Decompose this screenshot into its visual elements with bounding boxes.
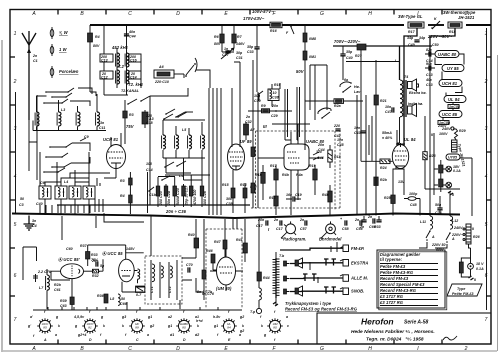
bank1 coil L2a [35, 112, 39, 126]
dial lamp 1 [446, 165, 461, 173]
svg-text:C18: C18 [146, 121, 153, 125]
svg-text:C71: C71 [150, 286, 154, 293]
svg-text:C43: C43 [354, 131, 361, 135]
HT bus right segment [428, 24, 444, 26]
svg-text:C44: C44 [129, 35, 136, 39]
svg-text:L4: L4 [179, 174, 183, 178]
svg-text:L11: L11 [420, 220, 426, 224]
svg-text:R29: R29 [459, 129, 466, 133]
ground from bus [24, 216, 38, 231]
heater capacitor C50 [432, 43, 439, 47]
volume pot 32c C46 [313, 150, 324, 160]
svg-text:500M C24: 500M C24 [176, 188, 180, 205]
chassis mark bottom [469, 276, 478, 282]
svg-text:C17: C17 [276, 227, 284, 231]
svg-text:EKSTRA: EKSTRA [351, 261, 368, 266]
hum balance caps under bus [359, 216, 382, 229]
svg-text:T.p: T.p [250, 310, 256, 314]
frame tick marks bottom [58, 340, 442, 345]
type callout parallelogram [447, 284, 482, 296]
svg-text:R1b: R1b [255, 173, 263, 177]
T-caps pair 2 [324, 259, 336, 266]
svg-text:R33: R33 [91, 253, 98, 257]
svg-text:2n: 2n [273, 218, 279, 222]
svg-text:UL 84: UL 84 [404, 137, 416, 142]
detector verticals [285, 87, 305, 145]
eye feed resistor R47 [214, 235, 227, 257]
svg-text:R21: R21 [380, 99, 387, 103]
svg-text:C11: C11 [99, 126, 105, 130]
band switch T2 KANAL [104, 88, 188, 105]
svg-text:0.1A: 0.1A [476, 267, 484, 271]
AF resistor R4b [322, 185, 332, 215]
IF padder labels [159, 185, 207, 206]
svg-text:80: 80 [273, 326, 277, 330]
discriminator load R40 [188, 233, 199, 258]
L5 coil 3 [188, 135, 192, 149]
IF dropper resistor [251, 147, 255, 157]
capacitor C44 top [124, 25, 136, 39]
oscillator coil A3 [142, 110, 154, 128]
svg-text:35p: 35p [346, 50, 353, 54]
svg-text:2n: 2n [354, 218, 360, 222]
bank1 bottom bus [33, 126, 106, 130]
switch bus bars [280, 248, 343, 291]
trimmer arrow [221, 48, 234, 59]
svg-text:g2: g2 [239, 329, 244, 333]
svg-text:90c: 90c [426, 62, 432, 66]
selector labels [451, 226, 480, 239]
svg-text:80: 80 [182, 326, 186, 330]
svg-text:Trykknapsystem i type: Trykknapsystem i type [285, 301, 332, 306]
label 10n C45 [337, 138, 345, 147]
magic eye UM80 [217, 249, 236, 291]
bank1 coil L2b [57, 112, 61, 126]
socket UF89 [121, 310, 154, 342]
svg-text:g1: g1 [147, 315, 152, 319]
resistor R6 [214, 25, 224, 52]
svg-text:R24: R24 [380, 166, 387, 170]
svg-text:R4: R4 [120, 194, 125, 198]
svg-text:170V-£3V~: 170V-£3V~ [243, 16, 265, 21]
svg-text:0.1A: 0.1A [453, 169, 461, 173]
frame tick marks top [58, 10, 442, 15]
output transformer T4 [395, 46, 408, 117]
svg-text:L12: L12 [452, 219, 458, 223]
mains switch b [446, 232, 455, 243]
svg-text:13V: 13V [398, 180, 405, 184]
antenna [22, 31, 38, 120]
heater chain wire [404, 28, 455, 158]
tube UCH81 [103, 133, 126, 178]
svg-text:2n: 2n [299, 218, 305, 222]
svg-text:40n: 40n [128, 30, 136, 34]
switch row mid 220 C18 [145, 112, 193, 125]
label 18V Q1A [476, 262, 484, 271]
heater stadium UABC80 [435, 51, 459, 58]
pushbutton caption [285, 301, 358, 312]
svg-text:h+d: h+d [196, 319, 203, 323]
svg-text:R19: R19 [309, 164, 316, 168]
svg-text:Petite FM-£3: Petite FM-£3 [452, 292, 474, 296]
svg-text:146V: 146V [236, 42, 245, 46]
svg-text:C3: C3 [19, 203, 24, 207]
svg-text:Record FM-£3-RG: Record FM-£3-RG [380, 288, 417, 293]
svg-text:UCH 81: UCH 81 [103, 137, 119, 142]
coupling coil A7 [244, 122, 256, 140]
grid resistor R24 [361, 50, 393, 170]
svg-text:10n: 10n [337, 138, 344, 142]
coil bank L5 [163, 109, 205, 135]
svg-text:G: G [320, 11, 324, 17]
heater stadium UCC85 [439, 111, 462, 118]
svg-text:UCC 85: UCC 85 [442, 112, 458, 117]
svg-text:a: a [286, 315, 288, 319]
tube UABC80 [284, 122, 325, 170]
svg-text:+: + [340, 217, 342, 221]
svg-text:10n: 10n [354, 126, 361, 130]
capacitor C33 [247, 25, 260, 92]
voltage selector strip [463, 224, 471, 244]
rectifier stadium UY85 [446, 154, 460, 160]
svg-text:T.b: T.b [279, 254, 285, 258]
svg-text:Indb. hø.: Indb. hø. [408, 102, 423, 106]
button squares with arrows [340, 245, 349, 295]
svg-text:10n: 10n [254, 94, 261, 98]
svg-text:2n: 2n [245, 115, 251, 119]
heater feed vertical right [449, 192, 451, 216]
svg-text:Ekstra hø.: Ekstra hø. [409, 91, 427, 95]
svg-text:R15: R15 [222, 183, 230, 187]
svg-text:Record FM-£3 og Record FM-£3-: Record FM-£3 og Record FM-£3-RG [285, 307, 358, 312]
svg-text:C29: C29 [271, 114, 278, 118]
svg-text:g': g' [27, 324, 31, 328]
screen caps row labels [254, 94, 261, 103]
svg-text:R44: R44 [263, 276, 270, 280]
L5 coil 2 [175, 135, 179, 149]
svg-text:A: A [431, 235, 435, 239]
FM B+ resistor R41 [236, 228, 247, 262]
svg-text:C13: C13 [426, 73, 433, 77]
UABC80 anode feed wires [310, 65, 327, 120]
grid numbers left [13, 31, 17, 323]
svg-text:20n: 20n [271, 104, 279, 108]
label R37 [66, 244, 88, 251]
svg-text:C72: C72 [168, 286, 172, 293]
svg-text:Bordmodel: Bordmodel [319, 237, 342, 242]
coupling caps between triodes [91, 259, 105, 268]
dial lamp resistor Ra [439, 160, 443, 180]
R30 C61 [51, 280, 70, 292]
label 50 C3 [19, 197, 24, 207]
svg-text:220·C10: 220·C10 [154, 80, 169, 84]
heater feed vertical left [429, 50, 431, 216]
svg-text:18 V: 18 V [476, 262, 484, 266]
heater stadium UCH81 [439, 72, 462, 93]
svg-text:D: D [176, 11, 180, 17]
padder area verticals [97, 178, 100, 186]
svg-text:220V~: 220V~ [451, 233, 463, 237]
switch row lower 100 C14 [146, 161, 210, 175]
plug cap 2n [273, 218, 284, 231]
svg-text:2: 2 [13, 79, 17, 85]
resistor R16 on bus [270, 22, 282, 33]
svg-text:Ⓐ UCC 85': Ⓐ UCC 85' [58, 257, 81, 262]
svg-text:R3: R3 [120, 179, 125, 183]
oscillator padder box 2 [55, 186, 67, 215]
plug cap C57b [299, 218, 308, 231]
oscillator padder box 4 [83, 186, 95, 215]
ratio detector cap C70 [186, 263, 193, 273]
svg-text:UL 84: UL 84 [448, 97, 460, 102]
resistor R18 volume [328, 145, 341, 168]
svg-text:85: 85 [43, 326, 47, 330]
det switch contact [258, 91, 263, 101]
svg-text:C13: C13 [101, 59, 108, 63]
label 220V 50Hz [431, 243, 446, 252]
svg-text:C74: C74 [435, 211, 442, 215]
svg-text:g3: g3 [121, 315, 126, 319]
svg-text:D: D [183, 338, 186, 342]
plug cap C58r [340, 217, 349, 231]
frame tick marks right [486, 57, 491, 296]
wire from switch [196, 70, 210, 88]
svg-text:C17: C17 [256, 224, 264, 228]
barretter JH-1521 [452, 140, 466, 167]
svg-text:3W-Type GL: 3W-Type GL [398, 14, 423, 19]
IF padder cluster [156, 173, 204, 207]
svg-text:R41: R41 [236, 238, 243, 242]
cap 50n C74 [435, 196, 443, 215]
bus vertical drops to FM unit [62, 216, 245, 262]
resistor R9 boxed [261, 104, 279, 118]
svg-text:2n: 2n [32, 54, 38, 58]
label C9 arrow [80, 135, 89, 141]
magic eye label [202, 286, 232, 296]
bank1 coil L3b [96, 112, 100, 126]
connector T2 circle [250, 306, 262, 314]
socket UM80 [260, 310, 289, 342]
osc grid resistor R3 [123, 100, 134, 144]
svg-text:g2: g2 [149, 324, 154, 328]
svg-text:g2+4: g2+4 [77, 333, 86, 337]
resistor R4 [88, 25, 101, 96]
gram switch arcs [339, 78, 361, 94]
svg-text:20n: 20n [257, 218, 265, 222]
bank2 switch contacts [43, 146, 67, 173]
anode line 700V-220V [333, 45, 432, 47]
svg-text:C33: C33 [247, 50, 254, 54]
UABC80 stem wires [258, 158, 323, 215]
svg-text:L8: L8 [110, 297, 114, 301]
svg-text:5: 5 [14, 222, 17, 228]
label 220 C42 [333, 124, 341, 138]
eye cathode resistor R45 [202, 262, 206, 300]
svg-text:2n: 2n [367, 215, 373, 219]
main earthy bus [12, 214, 460, 219]
svg-text:C57: C57 [300, 227, 308, 231]
socket UCH81 [73, 310, 106, 342]
svg-text:50n: 50n [435, 203, 442, 207]
svg-text:UY 85: UY 85 [447, 66, 459, 71]
grid numbers right [484, 31, 488, 323]
svg-text:a: a [239, 333, 241, 337]
svg-text:A: A [31, 346, 36, 352]
svg-text:C: C [128, 346, 132, 352]
svg-text:C60: C60 [66, 247, 73, 251]
coil L8b [118, 294, 127, 306]
screen resistor R20 [374, 163, 388, 216]
AM-FM switch arcs [317, 108, 332, 119]
tube UL84 [392, 126, 416, 169]
svg-text:a: a [147, 333, 149, 337]
UCC85 triode 1 [51, 264, 84, 297]
detector resistor R13 [269, 195, 278, 215]
svg-text:R36: R36 [97, 294, 104, 298]
svg-text:R17: R17 [270, 164, 278, 168]
svg-text:ALLE M.: ALLE M. [350, 276, 368, 281]
svg-text:Ⓐ UCC 85: Ⓐ UCC 85 [102, 251, 123, 256]
padder top feed wires [45, 171, 110, 186]
svg-text:80V: 80V [214, 42, 221, 46]
svg-text:100V-8?V~: 100V-8?V~ [252, 9, 274, 14]
wire R6R7 join [222, 50, 234, 52]
heater stub cap C13 [425, 62, 435, 77]
svg-text:A: A [43, 338, 47, 342]
rectifier return wire [460, 158, 472, 216]
svg-text:g1: g1 [213, 324, 218, 328]
Bordmodel connector [319, 221, 342, 241]
svg-text:C58: C58 [342, 227, 349, 231]
svg-text:C1: C1 [33, 59, 38, 63]
svg-text:A: A [31, 11, 36, 17]
svg-text:C31: C31 [236, 56, 243, 60]
svg-text:240V~: 240V~ [453, 226, 465, 230]
svg-text:50: 50 [121, 297, 125, 301]
L5 coil 4 [201, 135, 205, 149]
jack icon 2 [295, 286, 303, 296]
svg-text:JH-1521: JH-1521 [458, 15, 475, 20]
svg-text:til typerne:: til typerne: [380, 257, 403, 262]
svg-text:C40: C40 [36, 202, 43, 206]
svg-text:Petite FM-£3: Petite FM-£3 [380, 264, 406, 269]
heater boxed cap 1n C5b [438, 118, 451, 132]
padder bus drops [40, 199, 144, 222]
svg-text:20p·20 C27: 20p·20 C27 [185, 185, 189, 206]
svg-text:10: 10 [273, 91, 277, 95]
bank2 switch wiring [44, 143, 90, 172]
svg-text:a2: a2 [168, 315, 172, 319]
label 20n C36b [317, 143, 325, 152]
svg-text:34p: 34p [407, 36, 414, 40]
triode2 anode coil [134, 269, 140, 283]
right margin wire [486, 28, 488, 310]
Radiogram connector [281, 221, 307, 241]
svg-text:C32: C32 [245, 120, 252, 124]
oscillator padder box 3 [69, 186, 81, 215]
title block [317, 313, 491, 344]
resistor R9 0M8 [303, 25, 316, 51]
svg-text:2.2 C76: 2.2 C76 [37, 270, 51, 274]
AM osc module A6 [154, 65, 184, 84]
svg-text:R39: R39 [60, 299, 67, 303]
label 10n C43 [354, 126, 366, 135]
bus tap switch F [286, 26, 294, 35]
svg-text:100: 100 [146, 162, 152, 166]
triode1 anode resistor R32 [84, 259, 103, 278]
svg-text:Petite FM-£3-RG: Petite FM-£3-RG [380, 270, 414, 275]
FM IF verticals [148, 96, 203, 213]
FM unit bottom wires [33, 300, 242, 310]
heater boxed cap 1n C58 [448, 103, 460, 111]
svg-text:Radiogram.: Radiogram. [283, 237, 307, 242]
bank2 drop wires [37, 95, 89, 186]
UCC85 triode 2 [119, 253, 144, 292]
svg-text:T4: T4 [404, 75, 408, 79]
L5 coil 1 [162, 135, 166, 149]
svg-text:50: 50 [20, 197, 24, 201]
left margin wire [15, 92, 17, 214]
svg-text:2: 2 [464, 346, 468, 352]
grid resistor R33 [86, 245, 99, 266]
UABC80 anode resistor R19 [309, 164, 317, 195]
svg-text:C49: C49 [408, 43, 415, 47]
svg-text:R4b: R4b [282, 173, 290, 177]
bank1 switch wiring [44, 88, 92, 106]
svg-text:R6: R6 [214, 35, 219, 39]
bypass capacitor 100p C48 [404, 192, 420, 216]
svg-text:R2a: R2a [334, 104, 341, 108]
svg-text:0M1: 0M1 [309, 55, 316, 59]
svg-text:C14: C14 [146, 168, 153, 172]
resistor R21 top [374, 60, 387, 215]
FM choke L6 [257, 219, 270, 306]
osc resistor R4c [120, 194, 132, 214]
jack icon 1 [295, 258, 303, 268]
svg-text:R2?: R2? [355, 54, 363, 58]
extra speaker jack [408, 79, 427, 95]
svg-text:C16: C16 [130, 59, 137, 63]
oscillator padder box 1 [39, 186, 51, 215]
speaker coupling C47 [385, 105, 394, 114]
svg-text:C4: C4 [32, 224, 37, 228]
mains switch a [426, 230, 435, 241]
detector resistor R17b [270, 164, 278, 195]
parts R36 L8 [97, 294, 114, 303]
pushbutton riser wires [310, 242, 337, 283]
coupling capacitor to UL84 grid [355, 44, 366, 58]
svg-text:UCH 81: UCH 81 [442, 81, 458, 86]
plug cap C56 [354, 218, 363, 231]
grid feed horizontal [272, 123, 310, 125]
AVC line [248, 110, 292, 112]
T-caps pair 3 [324, 287, 336, 294]
svg-text:C: C [136, 338, 139, 342]
svg-text:C70: C70 [186, 263, 193, 267]
FM unit interconnect wires [88, 245, 243, 292]
svg-text:89: 89 [135, 326, 139, 330]
svg-text:80V: 80V [93, 44, 100, 48]
svg-text:Type: Type [457, 287, 465, 291]
heater junction circle [437, 124, 454, 130]
bank1 left stub [32, 121, 34, 131]
svg-text:T2.KANAL: T2.KANAL [121, 89, 139, 93]
L5 bottom wires [163, 150, 205, 158]
UCC85 label b [102, 247, 135, 256]
svg-text:h.8v: h.8v [213, 315, 221, 319]
svg-text:7: 7 [485, 317, 488, 323]
plug cap 20n C57 [256, 218, 268, 228]
